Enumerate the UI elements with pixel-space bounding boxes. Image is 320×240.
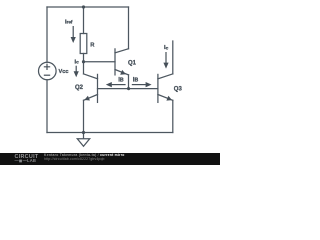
current arrow Ic left: [75, 66, 77, 72]
transistor Q1 base bar: [114, 49, 116, 75]
footer credit line 2: [44, 157, 105, 161]
svg-text:Ic: Ic: [164, 45, 169, 51]
current arrow Ic right: [165, 52, 167, 63]
transistor Q1 emitter arrow: [120, 70, 126, 75]
current arrow Iref: [72, 26, 74, 38]
node dot top: [82, 5, 85, 8]
transistor Q3 emitter diagonal: [158, 95, 173, 101]
svg-text:Q2: Q2: [75, 85, 84, 91]
transistor Q2 collector diagonal: [84, 74, 98, 79]
wire bottom rail: [47, 132, 173, 134]
resistor R bottom lead: [83, 54, 85, 62]
wire top rail: [47, 6, 129, 8]
transistor Q1 emitter lead: [128, 75, 130, 89]
ground triangle: [77, 139, 89, 147]
svg-text:Q3: Q3: [174, 87, 183, 93]
wire left vertical to Vcc: [46, 7, 48, 62]
transistor Q2 collector lead: [83, 62, 85, 74]
transistor Q1 collector lead: [128, 7, 130, 49]
svg-text:R: R: [90, 42, 95, 48]
transistor Q3 base bar: [157, 74, 159, 102]
ground stub: [83, 133, 85, 139]
footer credit line 1: [44, 153, 125, 157]
Vcc minus sign: [44, 74, 50, 76]
transistor Q1 collector diagonal: [115, 49, 129, 53]
transistor Q3 collector lead: [172, 41, 174, 74]
transistor Q1 emitter diagonal: [115, 70, 129, 75]
wire base rail: [98, 88, 158, 90]
svg-text:Q1: Q1: [128, 61, 137, 67]
transistor Q2 emitter diagonal: [84, 95, 98, 101]
transistor Q2 base bar: [97, 74, 99, 102]
wire node A to Q1 base: [84, 61, 116, 63]
svg-text:Vcc: Vcc: [59, 69, 69, 75]
node dot base rail: [127, 87, 130, 90]
transistor Q2 emitter lead: [83, 100, 85, 132]
transistor Q3 collector diagonal: [158, 74, 173, 79]
svg-text:Ic: Ic: [75, 60, 80, 66]
resistor R body: [80, 34, 87, 54]
node dot ground: [82, 131, 85, 134]
Vcc plus sign: [44, 64, 50, 70]
footer logo CIRCUIT LAB: [15, 155, 39, 163]
svg-text:IB: IB: [118, 77, 124, 83]
transistor Q2 emitter arrow: [84, 96, 90, 101]
current arrow IB left: [112, 84, 126, 86]
transistor Q3 emitter arrow: [166, 96, 172, 101]
footer bar: [0, 153, 220, 166]
resistor R top lead: [83, 7, 85, 34]
voltage source V1 Vcc: [39, 62, 57, 80]
current arrow IB right: [132, 84, 146, 86]
svg-text:Iref: Iref: [65, 20, 73, 26]
svg-text:IB: IB: [133, 77, 139, 83]
wire Vcc bottom: [46, 80, 48, 133]
transistor Q3 emitter lead: [172, 100, 174, 132]
node A dot: [82, 60, 85, 63]
